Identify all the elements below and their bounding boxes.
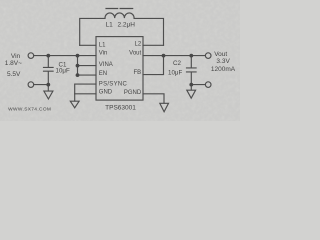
wire: GND pin <box>75 93 96 95</box>
ground (PGND) <box>160 103 169 112</box>
wire: PS/SYNC to ground <box>75 84 96 101</box>
ground (C2) <box>187 90 196 98</box>
op IC U1 TPS63001 box <box>96 37 143 101</box>
ground (C1) <box>44 91 53 99</box>
terminal Vin- <box>28 82 34 88</box>
inductor L1 arcs <box>105 13 134 18</box>
inductor L1 core bars <box>106 8 133 10</box>
wire: lower-left rail <box>34 85 49 91</box>
wire: Vout rail <box>143 55 205 57</box>
node: FB/Vout junction <box>162 54 166 58</box>
ground (middle) <box>70 101 79 108</box>
terminal Vin+ <box>28 53 34 59</box>
wire: L1 pin <box>80 44 96 46</box>
capacitor C2 <box>187 56 197 85</box>
node: VINA junction <box>76 64 80 68</box>
wire: riser feeding VINA and EN <box>78 56 97 76</box>
capacitor C1 <box>44 56 54 85</box>
wire: main input rail (Vin) <box>34 55 96 57</box>
wire: lower-right rail <box>191 85 205 90</box>
wire: top rail left segment + drop to L1 pin <box>80 18 105 45</box>
wire: top rail right segment + drop to L2 pin <box>134 18 163 45</box>
terminal Vout- <box>205 82 211 88</box>
wire: PGND to ground <box>143 94 164 103</box>
node: lower-left junction <box>46 83 50 87</box>
node: C1 top junction <box>46 54 50 58</box>
node: riser top junction <box>76 54 80 58</box>
node: lower-right junction <box>189 83 193 87</box>
node: C2 top junction <box>189 54 193 58</box>
node: EN junction <box>76 73 80 77</box>
terminal Vout+ <box>205 53 211 59</box>
wire: FB to Vout <box>143 56 164 75</box>
wire: L2 pin <box>143 44 164 46</box>
